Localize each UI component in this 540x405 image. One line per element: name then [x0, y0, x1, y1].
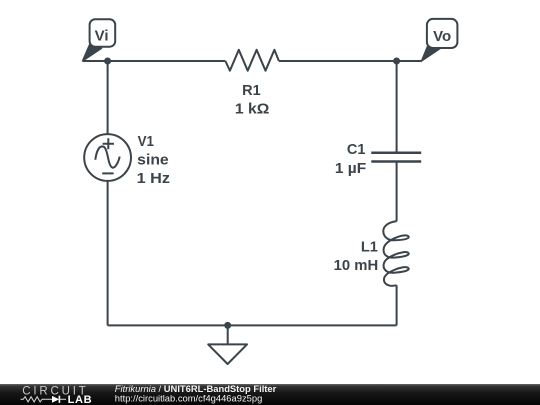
svg-text:Vi: Vi — [95, 27, 109, 44]
logo diode — [46, 398, 52, 400]
wire right vertical lower — [396, 285, 398, 325]
wire left vertical upper — [107, 61, 109, 134]
node Vi flag — [83, 19, 116, 61]
resistor R1 — [225, 50, 279, 71]
svg-text:1 µF: 1 µF — [335, 161, 366, 177]
svg-text:1 Hz: 1 Hz — [137, 171, 170, 187]
svg-text:Vo: Vo — [433, 28, 451, 45]
plus sign — [103, 138, 114, 149]
node Vo flag — [422, 19, 458, 61]
svg-text:LAB: LAB — [68, 394, 93, 405]
svg-text:V1: V1 — [138, 134, 154, 150]
minus sign — [102, 172, 113, 174]
voltage source V1 — [84, 134, 131, 181]
svg-text:1 kΩ: 1 kΩ — [235, 101, 270, 117]
svg-text:R1: R1 — [242, 83, 261, 99]
wire right vertical middle — [396, 162, 398, 222]
svg-text:sine: sine — [137, 153, 169, 169]
footer bar — [0, 383, 540, 405]
svg-text:C1: C1 — [347, 142, 366, 158]
ground — [208, 325, 247, 364]
logo resistor zigzag — [21, 397, 46, 402]
wire right vertical upper — [396, 61, 398, 153]
wire top horizontal right segment — [279, 60, 422, 62]
junction dot top-left — [104, 58, 111, 65]
sine wave — [95, 146, 119, 167]
svg-text:http://circuitlab.com/cf4g446a: http://circuitlab.com/cf4g446a9z5pg — [115, 392, 262, 403]
wire bottom horizontal — [108, 324, 397, 326]
junction dot top-right — [393, 58, 400, 65]
svg-text:10 mH: 10 mH — [334, 258, 379, 274]
inductor L1 — [383, 221, 408, 286]
svg-text:L1: L1 — [361, 240, 378, 256]
wire top horizontal left segment — [83, 60, 225, 62]
capacitor C1 — [371, 153, 421, 162]
wire left vertical lower — [107, 181, 109, 326]
junction dot ground — [224, 322, 231, 329]
